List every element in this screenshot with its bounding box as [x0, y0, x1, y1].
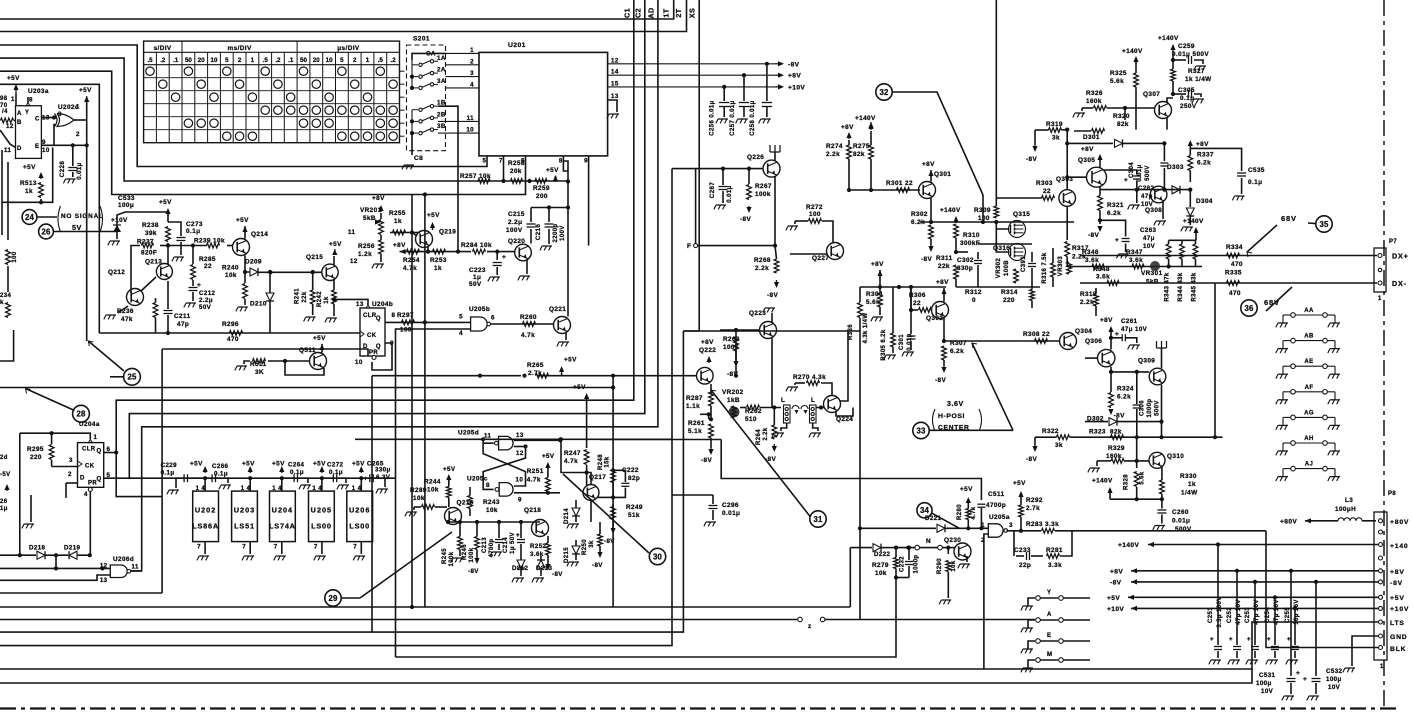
svg-text:-8V: -8V: [921, 256, 932, 263]
svg-text:100B: 100B: [1004, 260, 1010, 276]
switch 1B: [412, 109, 418, 111]
wire pin7 down: [503, 156, 505, 181]
svg-text:-8V: -8V: [767, 292, 778, 299]
svg-text:S201: S201: [413, 36, 430, 43]
svg-text:12: 12: [516, 450, 524, 457]
resistor R236: [153, 303, 158, 318]
svg-text:.5: .5: [263, 57, 269, 64]
svg-text:P7: P7: [1389, 239, 1397, 245]
svg-text:C233: C233: [1014, 547, 1031, 554]
wire Q307 collector: [1167, 98, 1173, 102]
svg-text:+8V: +8V: [788, 73, 801, 80]
svg-text:D301: D301: [1083, 134, 1100, 141]
svg-text:22k: 22k: [302, 291, 308, 302]
svg-text:0.01μ: 0.01μ: [727, 185, 733, 202]
wire y287 row: [860, 286, 946, 288]
wire E pin row: [41, 144, 86, 146]
ground L2: [813, 423, 818, 431]
pointer circle 32: [876, 84, 892, 100]
svg-text:-8V: -8V: [1026, 456, 1037, 463]
svg-text:LS86A: LS86A: [192, 521, 219, 530]
svg-text:11: 11: [132, 564, 139, 571]
wire bus5 vert x412: [411, 195, 413, 608]
svg-text:R290: R290: [937, 558, 943, 574]
svg-text:R322: R322: [1042, 428, 1059, 435]
ground Q230: [966, 556, 968, 562]
svg-text:2200p: 2200p: [553, 223, 559, 242]
capacitor C257: [742, 73, 746, 77]
svg-text:50V: 50V: [199, 304, 212, 311]
wire pin9 down: [588, 156, 590, 246]
svg-text:-8V: -8V: [788, 61, 800, 68]
wire y437 row: [1085, 436, 1223, 438]
ground C228: [66, 178, 76, 180]
svg-text:4.7k: 4.7k: [403, 265, 417, 272]
pointer circle 34: [917, 503, 932, 518]
wire U203a pin8 top: [27, 97, 29, 103]
wire bracket 2: [0, 58, 568, 181]
svg-text:+5V: +5V: [427, 212, 440, 219]
svg-text:1 4: 1 4: [352, 486, 362, 492]
svg-text:R283 3.3k: R283 3.3k: [1026, 521, 1059, 528]
wire U205a pin2: [984, 534, 988, 669]
wire pin1 vert ext: [19, 510, 21, 555]
svg-text:33: 33: [916, 426, 926, 435]
svg-text:R241: R241: [295, 288, 301, 304]
svg-text:.2: .2: [275, 57, 281, 64]
svg-text:VR301: VR301: [1141, 270, 1163, 277]
table s/DIV grid: [144, 41, 400, 143]
svg-text:3.6k: 3.6k: [1085, 257, 1099, 264]
power -8V R252: [547, 566, 549, 568]
svg-text:C535: C535: [1248, 167, 1265, 174]
svg-text:0.1μ: 0.1μ: [1248, 179, 1262, 186]
svg-text:300kF: 300kF: [960, 240, 980, 247]
ground L1: [781, 423, 787, 431]
svg-text:Q305: Q305: [1078, 157, 1095, 164]
wire R295 CK: [52, 466, 78, 468]
wire top bus 2T: [0, 0, 687, 32]
svg-text:5kB: 5kB: [1146, 279, 1159, 286]
svg-text:0.01μ: 0.01μ: [722, 510, 740, 517]
svg-text:Q212: Q212: [108, 269, 125, 276]
svg-text:+5V: +5V: [242, 461, 255, 468]
svg-text:3: 3: [58, 111, 62, 118]
svg-text:LS00: LS00: [349, 521, 370, 530]
svg-text:μs/DIV: μs/DIV: [337, 45, 360, 52]
svg-text:1 4: 1 4: [241, 486, 251, 492]
wire z corner: [859, 528, 861, 619]
svg-text:R335: R335: [1225, 270, 1242, 277]
svg-text:Q224: Q224: [836, 416, 853, 423]
svg-text:0.1μ: 0.1μ: [161, 470, 175, 477]
svg-text:+5V: +5V: [313, 335, 326, 342]
U206 pin14 wire: [360, 478, 362, 491]
svg-text:R345 43k: R345 43k: [1192, 272, 1198, 301]
U206 +5V arrow: [360, 468, 362, 473]
power +8V Q302: [943, 290, 945, 295]
svg-text:7: 7: [274, 544, 278, 551]
svg-text:-5V: -5V: [0, 472, 11, 478]
svg-text:R261: R261: [688, 420, 705, 427]
svg-text:82p: 82p: [628, 475, 640, 482]
svg-text:D303: D303: [1167, 164, 1184, 171]
svg-text:BLK: BLK: [1390, 646, 1406, 653]
wire bottom bus 1: [0, 606, 850, 608]
svg-text:R310: R310: [963, 232, 980, 239]
svg-text:.1: .1: [173, 57, 179, 64]
svg-text:25: 25: [127, 373, 137, 382]
wire bottom bus 5: [396, 578, 897, 658]
wire VR201 row: [390, 232, 412, 234]
svg-text:47μ 10V: 47μ 10V: [1274, 599, 1280, 625]
switch AB: [1278, 348, 1288, 350]
svg-text:.1: .1: [288, 57, 294, 64]
wire Q301 emitter: [930, 198, 932, 222]
svg-text:R275: R275: [853, 143, 870, 150]
svg-text:U205b: U205b: [469, 306, 490, 313]
capacitor C252: [1236, 571, 1238, 645]
svg-text:D209: D209: [245, 259, 262, 266]
wire F box row: [672, 168, 763, 170]
svg-text:DX-: DX-: [1392, 279, 1407, 288]
svg-text:C272: C272: [327, 462, 344, 469]
power +5V R238: [167, 210, 169, 216]
wire Q215 collector: [333, 256, 335, 265]
svg-text:8: 8: [29, 97, 33, 104]
svg-text:+: +: [1296, 670, 1300, 677]
svg-text:160k: 160k: [1086, 98, 1102, 105]
switch S201 box: [407, 45, 446, 151]
svg-text:R248: R248: [598, 454, 604, 470]
svg-text:8: 8: [559, 158, 563, 165]
svg-text:3.6k: 3.6k: [530, 551, 544, 558]
U205 pin14 wire: [321, 478, 323, 491]
wire U204a pin1: [20, 433, 91, 439]
svg-text:4: 4: [84, 491, 88, 498]
IC U204: [270, 491, 296, 541]
capacitor C211: [167, 281, 169, 309]
svg-text:+: +: [516, 532, 520, 539]
svg-text:R326: R326: [1086, 90, 1103, 97]
svg-text:C1: C1: [623, 8, 632, 18]
svg-text:+: +: [1303, 676, 1307, 683]
node N row: [896, 547, 915, 549]
svg-text:1: 1: [11, 96, 15, 103]
power -8V R246: [476, 560, 478, 562]
pointer circle 26: [39, 224, 54, 239]
svg-text:-8V: -8V: [701, 457, 712, 464]
IC U202: [193, 491, 219, 541]
svg-text:3.3μ 160V: 3.3μ 160V: [1217, 596, 1223, 627]
switch M: [1023, 667, 1033, 669]
svg-text:1: 1: [251, 57, 255, 64]
power +8V Q301: [930, 172, 932, 177]
svg-text:VR202: VR202: [722, 389, 744, 396]
wire bottom bus 6: [0, 668, 1252, 670]
svg-text:C2: C2: [634, 8, 643, 18]
resistor R298 partial: [1, 118, 14, 123]
switch AE: [1278, 373, 1288, 375]
svg-text:U203: U203: [234, 506, 255, 515]
svg-text:C211: C211: [174, 313, 191, 320]
svg-text:7: 7: [242, 544, 246, 551]
border right dash-dot: [1383, 0, 1385, 709]
svg-text:1A: 1A: [437, 55, 446, 62]
svg-text:13: 13: [100, 577, 108, 584]
power +10V arrow: [775, 86, 782, 88]
svg-text:R258: R258: [508, 160, 525, 167]
svg-text:C215: C215: [508, 211, 525, 218]
svg-text:F: F: [687, 243, 691, 250]
svg-text:+5V: +5V: [190, 461, 203, 468]
U203 +5V arrow: [249, 468, 251, 473]
capacitor C223: [496, 252, 498, 260]
svg-text:2: 2: [76, 131, 80, 138]
svg-text:+8V: +8V: [871, 261, 884, 268]
svg-text:1: 1: [76, 104, 80, 111]
svg-text:R337: R337: [1197, 152, 1214, 159]
svg-text:R297: R297: [397, 312, 414, 319]
svg-text:26: 26: [41, 227, 51, 236]
svg-text:6: 6: [491, 315, 495, 322]
svg-text:+140V: +140V: [855, 115, 876, 122]
capacitor C212: [192, 280, 194, 286]
ground Q221: [565, 332, 567, 340]
arrow partial: [6, 486, 8, 491]
svg-text:VR303: VR303: [1058, 256, 1064, 277]
pointer 25 diagonal: [88, 341, 124, 371]
svg-text:L: L: [811, 397, 815, 404]
wire U205b in4: [396, 329, 471, 478]
svg-text:15: 15: [611, 80, 619, 87]
svg-text:100: 100: [809, 211, 821, 218]
wire Q316 rows: [978, 243, 1032, 245]
power rail +8V: [1133, 570, 1139, 572]
table selection circles: [146, 67, 154, 75]
switch AJ: [1278, 476, 1288, 478]
svg-text:+80V: +80V: [1280, 519, 1297, 526]
svg-text:U205d: U205d: [458, 430, 479, 437]
svg-text:0.01μ 500V: 0.01μ 500V: [1172, 51, 1209, 58]
svg-text:C232: C232: [900, 556, 906, 572]
svg-text:470: 470: [1231, 261, 1243, 268]
wire Q216 row: [448, 521, 540, 523]
svg-text:C305: C305: [1178, 87, 1195, 94]
wire row y189: [1100, 189, 1190, 191]
svg-text:AG: AG: [1304, 410, 1314, 416]
IC U205: [309, 491, 335, 541]
svg-text:1.2k: 1.2k: [358, 251, 372, 258]
svg-text:11: 11: [4, 147, 11, 154]
svg-text:4.3k 1/4W: 4.3k 1/4W: [863, 313, 869, 344]
svg-text:R312: R312: [965, 289, 982, 296]
svg-text:+8V: +8V: [701, 339, 714, 346]
pointer circle 33: [913, 422, 929, 438]
ground Q223 top: [771, 313, 773, 322]
capacitor C256: [722, 85, 726, 89]
wire C215 top row: [531, 207, 568, 209]
switch AH: [1278, 450, 1288, 452]
svg-text:30: 30: [653, 552, 663, 561]
svg-text:C223: C223: [469, 267, 486, 274]
svg-text:3: 3: [69, 457, 73, 464]
svg-text:R325: R325: [1110, 70, 1127, 77]
svg-text:5: 5: [459, 314, 463, 321]
IC U206: [347, 491, 373, 541]
svg-text:R246: R246: [462, 544, 468, 560]
svg-text:R268: R268: [754, 257, 771, 264]
wire U204b Q out: [385, 321, 412, 323]
capacitor C253: [1254, 582, 1256, 645]
U201 pin 15 wire: [608, 86, 775, 88]
svg-text:R303: R303: [1036, 180, 1053, 187]
wire Q212-Q213: [141, 277, 156, 291]
ground R236 left: [118, 306, 128, 313]
svg-text:CLR: CLR: [82, 447, 96, 453]
svg-text:R281: R281: [1046, 547, 1063, 554]
svg-text:1T: 1T: [662, 8, 671, 17]
svg-text:+8V: +8V: [922, 161, 935, 168]
svg-text:R513: R513: [20, 180, 37, 187]
wire R513 row: [2, 148, 53, 203]
power +140V Q301: [870, 122, 872, 124]
svg-text:+5V: +5V: [23, 164, 36, 171]
svg-text:10k: 10k: [225, 272, 237, 279]
switch Y: [1023, 605, 1033, 607]
svg-text:7: 7: [499, 158, 503, 165]
wire net AD: [131, 0, 658, 571]
wire Q309 emitter: [1161, 385, 1163, 437]
svg-text:Q304: Q304: [1075, 328, 1092, 335]
wire Q222 wrap x372: [371, 376, 373, 632]
svg-text:R292: R292: [1026, 497, 1043, 504]
svg-text:470: 470: [227, 336, 239, 343]
svg-text:0.01μ: 0.01μ: [77, 162, 83, 179]
svg-text:AE: AE: [1304, 359, 1313, 365]
svg-text:L3: L3: [1345, 497, 1353, 504]
IC U203a box: [16, 106, 42, 159]
ground C226 area: [30, 495, 32, 522]
svg-text:U201: U201: [508, 42, 526, 49]
svg-text:5.1k: 5.1k: [688, 428, 702, 435]
svg-text:C253: C253: [1245, 607, 1251, 623]
svg-text:+10V: +10V: [788, 84, 805, 91]
svg-text:10V: 10V: [1328, 684, 1341, 691]
svg-text:100: 100: [400, 327, 412, 334]
wire U204a pin5 row: [104, 477, 130, 479]
svg-text:-8V: -8V: [604, 538, 615, 545]
wire U204a pin6 row: [104, 452, 117, 454]
svg-text:1 4: 1 4: [272, 486, 282, 492]
wire U205c out 10: [514, 483, 526, 486]
svg-text:R243: R243: [483, 499, 500, 506]
wire R343 rail: [1169, 239, 1196, 241]
svg-text:U204b: U204b: [372, 301, 393, 308]
svg-text:D304: D304: [1196, 198, 1213, 205]
svg-text:-8V: -8V: [1088, 232, 1099, 239]
svg-text:Q227: Q227: [812, 255, 829, 262]
svg-text:39k: 39k: [145, 230, 157, 237]
svg-text:2: 2: [470, 58, 474, 65]
U201 pin 3 wire: [446, 76, 480, 78]
svg-text:U205: U205: [311, 506, 332, 515]
svg-text:R314: R314: [1001, 289, 1018, 296]
svg-text:+: +: [1115, 331, 1119, 338]
U205 +5V arrow: [321, 468, 323, 473]
svg-text:R296: R296: [222, 321, 239, 328]
svg-text:82k: 82k: [1117, 121, 1129, 128]
svg-text:+140V: +140V: [1122, 48, 1143, 55]
svg-text:R285: R285: [199, 256, 216, 263]
svg-text:Q306: Q306: [1085, 338, 1102, 345]
svg-text:C304: C304: [1129, 162, 1135, 178]
svg-text:LS00: LS00: [311, 521, 332, 530]
switch 2A: [410, 75, 414, 79]
svg-text:50V: 50V: [469, 281, 482, 288]
wire bottom bus 4: [0, 169, 672, 646]
wire x1008 vertical: [612, 376, 614, 607]
svg-text:100μH: 100μH: [1335, 506, 1356, 513]
svg-text:1/4W: 1/4W: [1181, 490, 1198, 497]
wire long vertical x996: [995, 0, 997, 205]
power +5V R265: [561, 368, 563, 373]
wire y331 to R336: [683, 331, 860, 528]
svg-text:GND: GND: [1390, 634, 1408, 641]
svg-text:C214: C214: [503, 537, 509, 553]
switch E: [1023, 648, 1033, 650]
svg-text:+10V: +10V: [111, 217, 128, 224]
svg-text:47μ 10V: 47μ 10V: [1236, 599, 1242, 625]
svg-text:2A: 2A: [437, 67, 446, 74]
svg-text:Q315: Q315: [1013, 211, 1030, 218]
capacitor C258: [765, 62, 769, 66]
power +5V R259: [555, 177, 557, 182]
svg-text:U205c: U205c: [467, 476, 488, 483]
IC U201 box: [479, 52, 608, 155]
node z switch: [798, 617, 803, 622]
svg-text:L: L: [781, 397, 785, 404]
svg-text:8: 8: [486, 482, 490, 489]
svg-text:+: +: [1229, 637, 1233, 643]
U201 pin 10 wire: [438, 132, 479, 134]
svg-text:1000p: 1000p: [1147, 398, 1153, 417]
svg-text:2d: 2d: [0, 455, 8, 461]
power +5V U203a: [15, 86, 17, 94]
svg-text:R330: R330: [1180, 473, 1197, 480]
svg-text:R327: R327: [1188, 68, 1205, 75]
capacitor C531: [1290, 571, 1292, 676]
switch A: [1023, 627, 1033, 629]
wire R346 row: [1067, 266, 1202, 268]
svg-text:10: 10: [466, 127, 474, 134]
svg-text:22p: 22p: [1019, 562, 1031, 569]
wire Q226 emitter: [774, 176, 776, 246]
gate U202c: [57, 114, 74, 127]
svg-text:R347: R347: [1126, 249, 1143, 256]
svg-text:Q308: Q308: [1145, 207, 1162, 214]
svg-text:4: 4: [470, 81, 474, 88]
power -8V R321: [1099, 226, 1101, 230]
svg-text:R329: R329: [1108, 445, 1125, 452]
svg-text:NO SIGNAL: NO SIGNAL: [61, 213, 104, 220]
wire bottom bus 2 z-row: [0, 619, 799, 621]
svg-text:R323: R323: [1089, 429, 1106, 436]
svg-text:8: 8: [392, 312, 396, 319]
wire x425 vert: [424, 195, 426, 608]
svg-text:Q: Q: [376, 344, 381, 350]
wire bottom bus LTS: [0, 622, 1378, 683]
